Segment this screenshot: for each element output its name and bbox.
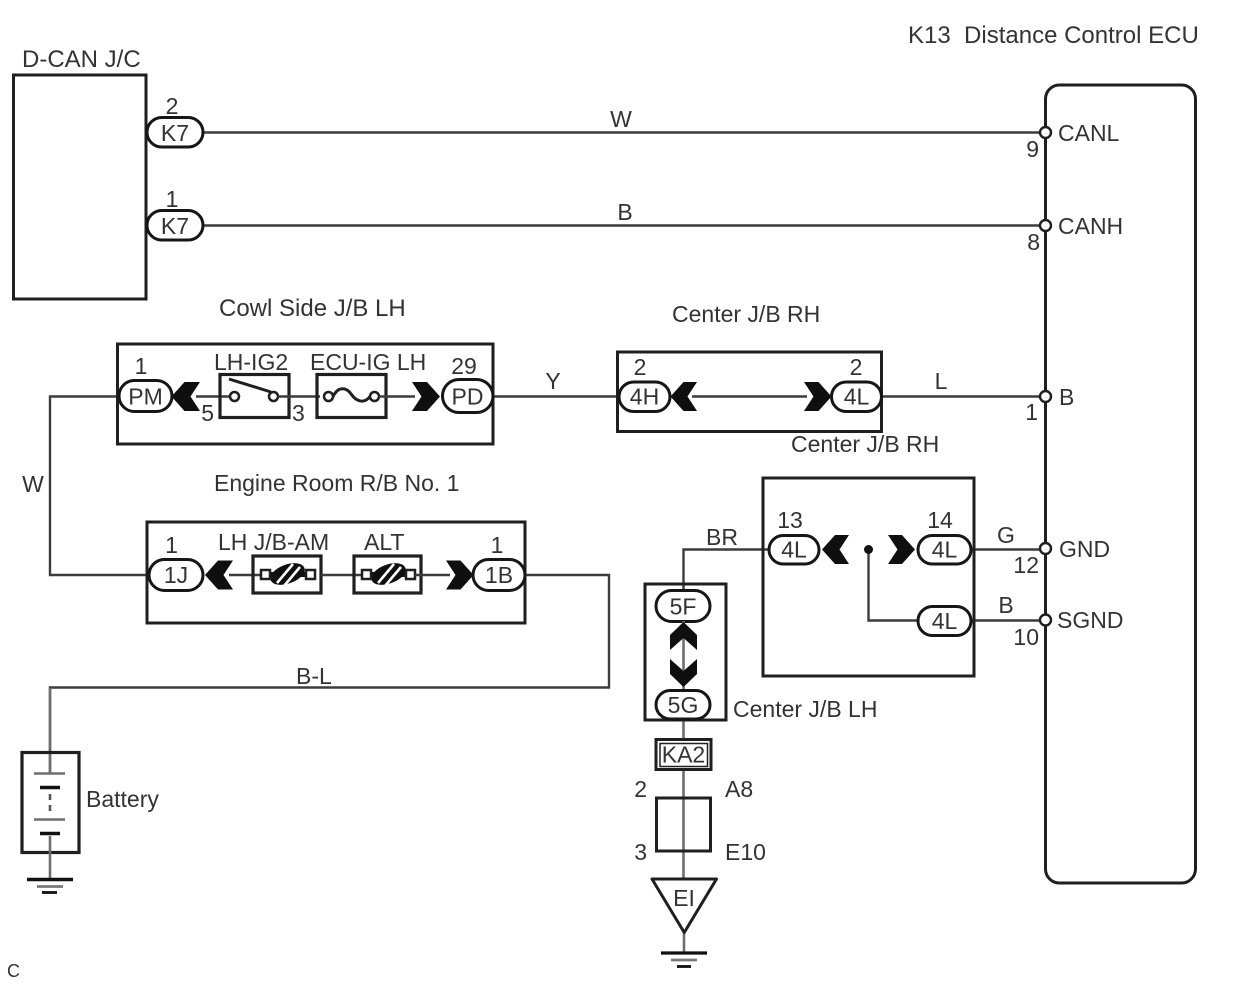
svg-text:14: 14 <box>927 507 953 533</box>
svg-text:3: 3 <box>292 400 305 426</box>
svg-text:9: 9 <box>1026 136 1039 162</box>
svg-text:13: 13 <box>777 507 803 533</box>
svg-text:10: 10 <box>1013 624 1039 650</box>
svg-text:C: C <box>7 961 20 981</box>
svg-text:ECU-IG LH: ECU-IG LH <box>310 349 426 375</box>
svg-text:GND: GND <box>1059 536 1110 562</box>
svg-text:B: B <box>617 199 632 225</box>
svg-text:3: 3 <box>634 839 647 865</box>
svg-text:4L: 4L <box>781 537 807 563</box>
svg-text:1: 1 <box>491 532 504 558</box>
svg-text:L: L <box>935 368 948 394</box>
svg-text:CANL: CANL <box>1058 120 1120 146</box>
svg-text:4L: 4L <box>844 384 870 410</box>
svg-text:ALT: ALT <box>364 529 404 555</box>
svg-text:12: 12 <box>1013 552 1039 578</box>
svg-text:G: G <box>997 522 1015 548</box>
svg-text:B: B <box>1059 384 1074 410</box>
svg-text:KA2: KA2 <box>662 742 705 768</box>
svg-text:K7: K7 <box>161 120 189 146</box>
svg-text:1B: 1B <box>485 562 513 588</box>
svg-text:SGND: SGND <box>1057 607 1123 633</box>
svg-text:B-L: B-L <box>296 663 332 689</box>
svg-text:2: 2 <box>850 354 863 380</box>
svg-text:PD: PD <box>452 384 484 410</box>
svg-text:W: W <box>22 471 44 497</box>
svg-text:Battery: Battery <box>86 786 159 812</box>
svg-text:29: 29 <box>451 353 477 379</box>
svg-text:LH-IG2: LH-IG2 <box>214 349 288 375</box>
svg-text:2: 2 <box>634 776 647 802</box>
svg-text:1: 1 <box>165 532 178 558</box>
svg-text:E10: E10 <box>725 839 766 865</box>
svg-text:A8: A8 <box>725 776 753 802</box>
svg-text:1: 1 <box>1025 399 1038 425</box>
svg-text:2: 2 <box>634 354 647 380</box>
svg-text:W: W <box>610 106 632 132</box>
svg-text:8: 8 <box>1027 229 1040 255</box>
svg-text:4L: 4L <box>932 537 958 563</box>
svg-text:CANH: CANH <box>1058 213 1123 239</box>
svg-text:LH J/B-AM: LH J/B-AM <box>218 529 329 555</box>
svg-text:5G: 5G <box>668 692 699 718</box>
svg-text:K13 Distance Control ECU: K13 Distance Control ECU <box>908 22 1199 49</box>
svg-text:Center J/B RH: Center J/B RH <box>791 431 939 457</box>
svg-text:Cowl Side J/B LH: Cowl Side J/B LH <box>219 295 406 322</box>
svg-text:K7: K7 <box>161 213 189 239</box>
svg-text:PM: PM <box>128 384 163 410</box>
svg-text:Y: Y <box>545 368 560 394</box>
svg-text:D-CAN J/C: D-CAN J/C <box>22 46 141 73</box>
svg-text:B: B <box>998 592 1013 618</box>
svg-text:1: 1 <box>135 353 148 379</box>
svg-text:4L: 4L <box>932 608 958 634</box>
svg-text:EI: EI <box>673 885 695 911</box>
svg-text:Center J/B RH: Center J/B RH <box>672 301 820 327</box>
svg-text:5: 5 <box>201 400 214 426</box>
svg-text:1J: 1J <box>164 562 188 588</box>
svg-text:BR: BR <box>706 524 738 550</box>
svg-text:5F: 5F <box>670 594 697 620</box>
svg-text:1: 1 <box>166 186 179 212</box>
svg-text:Center J/B LH: Center J/B LH <box>733 696 877 722</box>
svg-text:4H: 4H <box>630 384 659 410</box>
svg-text:2: 2 <box>166 93 179 119</box>
svg-text:Engine Room R/B No. 1: Engine Room R/B No. 1 <box>214 470 459 496</box>
